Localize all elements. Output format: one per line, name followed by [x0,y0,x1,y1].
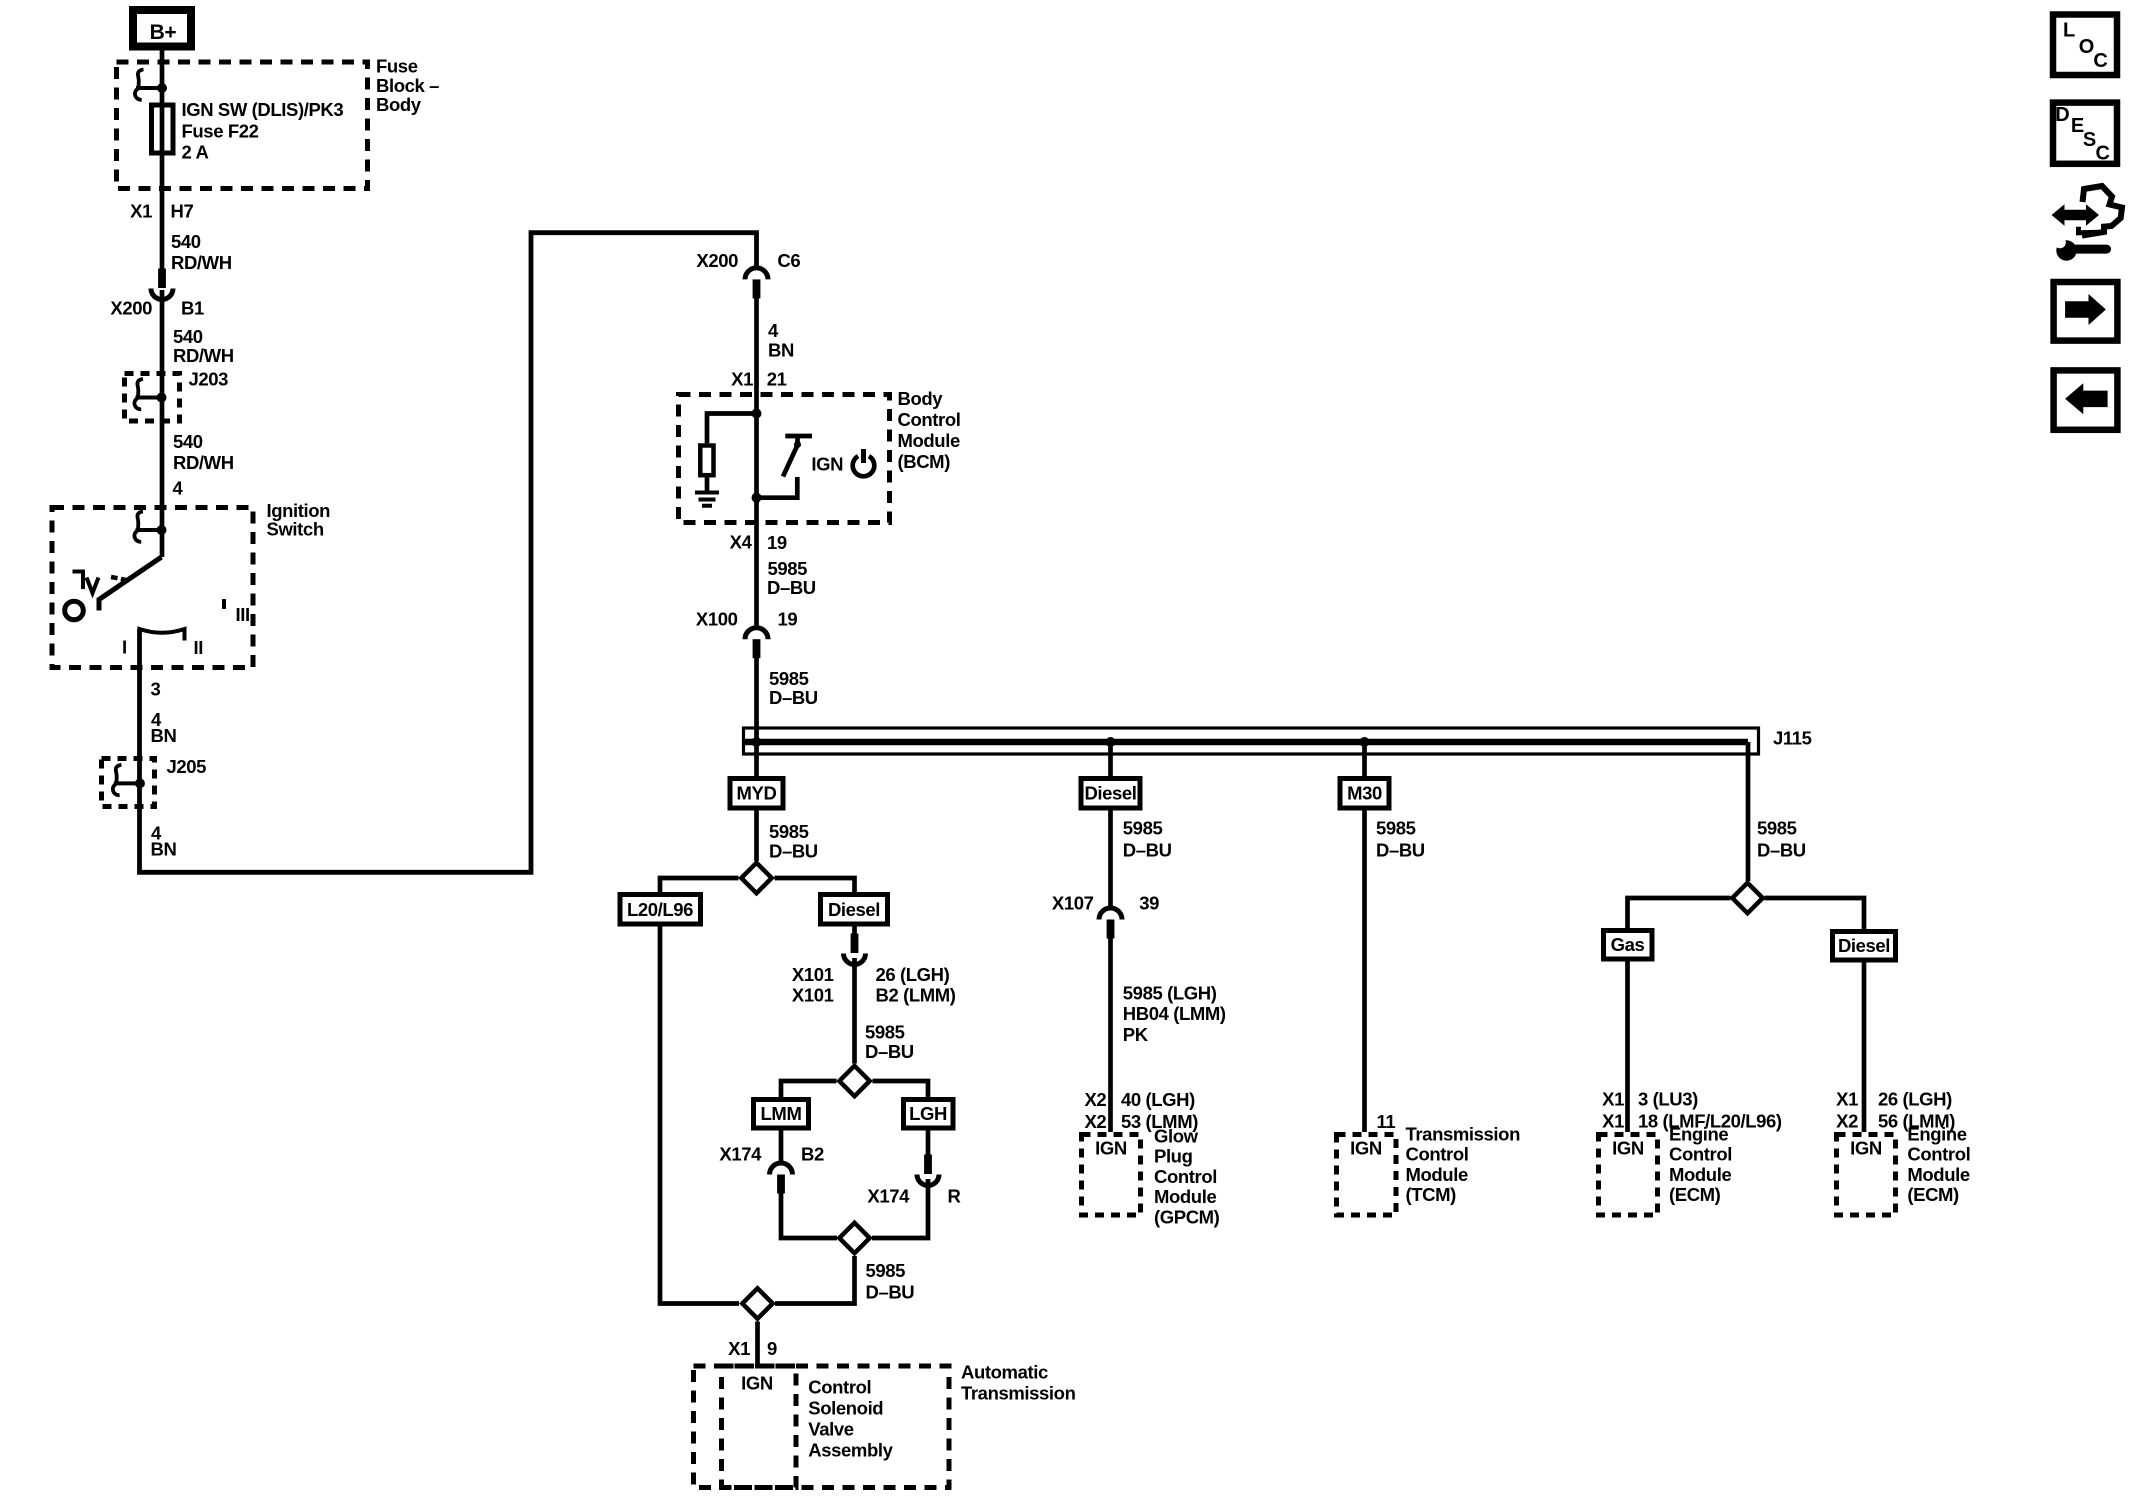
harness repair icon: wrench [2056,240,2076,260]
option box M30 [1362,742,1367,776]
svg-text:Plug: Plug [1154,1146,1193,1167]
wire: X174 B2 down to join diamond [781,1192,837,1238]
svg-text:26 (LGH): 26 (LGH) [876,964,950,985]
fuse block - body dashed box [117,62,368,189]
wire: X107 to GPCM [1108,938,1113,1132]
LOC icon button [2053,15,2117,76]
svg-text:RD/WH: RD/WH [171,252,232,273]
svg-text:IGN: IGN [1350,1138,1382,1159]
option box L20/L96 [620,895,701,925]
position III tick and label [222,599,226,609]
svg-text:X174: X174 [719,1144,762,1165]
option box Diesel (engine) [821,895,888,925]
wire: L20/L96 down and over to transmission diamond [660,927,739,1304]
wire: diamond to Gas [1628,898,1731,928]
svg-text:LMM: LMM [761,1103,802,1124]
engine control module (diesel) dashed box [1837,1135,1896,1216]
svg-text:Glow: Glow [1154,1126,1199,1147]
option box LGH [904,1100,954,1129]
wire: diamond to Diesel ECM [1765,898,1865,929]
fuse F22 [152,105,174,153]
svg-text:Control: Control [898,409,961,430]
svg-text:IGN: IGN [1612,1138,1644,1159]
svg-text:X1: X1 [130,201,152,222]
svg-text:Control: Control [1406,1144,1469,1165]
svg-text:Control: Control [1669,1144,1732,1165]
svg-text:I: I [122,637,127,658]
svg-text:5985: 5985 [1123,818,1163,839]
connector X107 39 (dome over pin) [1099,908,1122,939]
wire: M30 to TCM [1362,811,1367,1133]
svg-text:5985: 5985 [1757,818,1797,839]
connector X100 19 (dome over pin) [745,628,768,659]
DESC icon button [2053,103,2117,164]
svg-text:M30: M30 [1347,783,1382,804]
svg-text:540: 540 [173,326,203,347]
control solenoid valve assembly dashed box [722,1366,797,1488]
splice diamond LMM/LGH [839,1066,869,1096]
automatic transmission dashed box [694,1366,950,1488]
svg-text:Automatic: Automatic [961,1362,1048,1383]
connector X174 R (pin into cup) [917,1155,939,1186]
wire: bus right end down to engine split [1746,742,1751,881]
splice pack J115 bus [744,728,1759,754]
option box LMM [754,1100,809,1129]
svg-text:(BCM): (BCM) [898,451,951,472]
power icon [853,456,875,476]
splice/tap symbol in fuse block [135,70,167,100]
node: bus tap M30 [1360,737,1370,747]
svg-text:Solenoid: Solenoid [808,1398,883,1419]
svg-text:X101: X101 [792,985,834,1006]
svg-text:Module: Module [1907,1164,1969,1185]
svg-text:L20/L96: L20/L96 [627,899,693,920]
wire: join diamond down to transmission diamond [775,1256,855,1304]
forward arrow button [2054,282,2118,341]
connector X174 B2 (dome over pin) [770,1163,793,1194]
svg-text:21: 21 [767,369,787,390]
svg-text:X200: X200 [696,250,738,271]
svg-text:X200: X200 [110,298,152,319]
svg-text:5985 (LGH): 5985 (LGH) [1123,983,1217,1004]
battery terminal B+ [133,10,191,47]
harness repair icon: connector outline [2082,186,2122,236]
svg-text:X2: X2 [1084,1089,1106,1110]
svg-text:HB04 (LMM): HB04 (LMM) [1123,1003,1226,1024]
svg-text:O: O [2079,36,2094,58]
svg-text:Switch: Switch [267,519,324,540]
svg-text:3 (LU3): 3 (LU3) [1638,1089,1698,1110]
position IV glyph [73,572,84,590]
resistor in BCM [700,446,713,476]
svg-text:D–BU: D–BU [1123,840,1172,861]
svg-text:(TCM): (TCM) [1406,1184,1457,1205]
svg-text:5985: 5985 [768,558,808,579]
ignition switch dashed box [52,508,253,668]
svg-text:Control: Control [1907,1144,1970,1165]
svg-text:5985: 5985 [1376,818,1416,839]
svg-text:S: S [2083,129,2096,151]
svg-text:J115: J115 [1773,728,1812,749]
node: bus tap MYD [752,737,762,747]
svg-text:26 (LGH): 26 (LGH) [1878,1089,1952,1110]
svg-text:R: R [948,1186,961,1207]
svg-text:(ECM): (ECM) [1907,1184,1959,1205]
splice diamond gas/diesel [1732,883,1762,913]
wire: diamond to Diesel option [775,878,855,892]
wire: X200 to ignition switch [160,290,165,557]
svg-text:X1: X1 [1602,1111,1624,1132]
svg-text:III: III [236,604,250,625]
svg-text:D–BU: D–BU [769,687,818,708]
svg-text:RD/WH: RD/WH [173,345,234,366]
splice J203 dashed box [125,374,180,422]
svg-text:5985: 5985 [769,821,809,842]
svg-text:D–BU: D–BU [767,577,816,598]
connector X200 C6 (dome over pin) [745,268,768,299]
svg-text:Diesel: Diesel [1084,783,1136,804]
svg-text:X100: X100 [696,609,738,630]
switch pivot circle [65,601,84,620]
svg-text:C6: C6 [777,250,800,271]
svg-text:D–BU: D–BU [1757,840,1806,861]
svg-text:2 A: 2 A [182,142,209,163]
connector X101 (pin into cup) [844,934,866,965]
wire: Diesel to X101 [852,927,857,936]
svg-text:Module: Module [898,430,960,451]
wire: Gas to ECM [1625,962,1630,1133]
position detent arc between I and II [140,629,185,641]
IGN sense switch in BCM [785,436,812,445]
svg-text:X101: X101 [792,964,834,985]
option box Gas [1604,931,1653,960]
transmission control module dashed box [1337,1135,1397,1216]
splice symbol at ignition switch input [134,512,166,542]
wire: Diesel to X107 [1108,811,1113,908]
wire: diamond to LGH [873,1081,929,1097]
wire: branch to pull-down resistor [707,414,757,444]
svg-text:B2: B2 [801,1144,824,1165]
svg-text:D–BU: D–BU [866,1282,915,1303]
node: bus tap Diesel [1106,737,1116,747]
svg-text:Block –: Block – [376,75,439,96]
node: BCM input junction [752,409,762,419]
svg-text:X1: X1 [731,369,753,390]
wire: diamond to L20/L96 [660,878,739,892]
svg-text:MYD: MYD [737,783,777,804]
svg-text:Module: Module [1154,1186,1216,1207]
svg-text:Assembly: Assembly [808,1440,893,1461]
svg-text:Fuse: Fuse [376,56,418,77]
svg-text:Valve: Valve [808,1419,853,1440]
splice diamond below MYD [741,863,771,893]
svg-text:RD/WH: RD/WH [173,452,234,473]
svg-text:Transmission: Transmission [1406,1124,1521,1145]
svg-text:11: 11 [1377,1111,1396,1132]
back arrow button [2054,370,2118,429]
splice symbol J205 [113,765,145,795]
svg-text:IGN: IGN [741,1373,773,1394]
svg-text:D–BU: D–BU [1376,840,1425,861]
svg-text:4: 4 [768,320,779,341]
harness repair icon: double arrow [2052,204,2100,225]
svg-text:Fuse F22: Fuse F22 [182,120,259,141]
svg-text:(GPCM): (GPCM) [1154,1206,1220,1227]
svg-text:II: II [194,637,203,658]
wire: resistor to ground [705,478,710,491]
svg-text:Engine: Engine [1669,1124,1728,1145]
switch blade [99,557,162,611]
svg-text:19: 19 [767,532,787,553]
splice diamond transmission [742,1288,772,1318]
svg-text:IGN: IGN [1095,1138,1127,1159]
svg-text:Diesel: Diesel [1838,935,1890,956]
svg-text:X1: X1 [1836,1089,1858,1110]
svg-text:C: C [2093,50,2107,72]
svg-text:IGN: IGN [1850,1138,1882,1159]
wire: Diesel to ECM [1862,963,1867,1133]
svg-text:Control: Control [1154,1166,1217,1187]
svg-text:IGN SW (DLIS)/PK3: IGN SW (DLIS)/PK3 [182,99,344,120]
svg-text:Engine: Engine [1907,1124,1966,1145]
wire: LMM to X174 [779,1131,784,1163]
wire: C6 down through BCM to X100 [754,297,759,626]
svg-text:540: 540 [173,431,203,452]
svg-text:B+: B+ [150,21,177,44]
svg-text:B1: B1 [181,298,204,319]
svg-text:40 (LGH): 40 (LGH) [1121,1089,1195,1110]
svg-text:Transmission: Transmission [961,1383,1076,1404]
wire: diamond to control solenoid valve assembly [755,1322,760,1364]
svg-text:BN: BN [151,839,177,860]
wire: main run from ignition switch output, down, right, up and over to BCM column [140,233,757,873]
svg-text:Module: Module [1669,1164,1731,1185]
svg-text:PK: PK [1123,1024,1149,1045]
wire: LGH to X174 R [926,1131,931,1159]
ground symbol [695,493,719,506]
splice diamond join [839,1223,869,1253]
svg-text:39: 39 [1139,893,1159,914]
svg-text:D: D [2055,104,2069,126]
svg-text:9: 9 [767,1338,777,1359]
svg-text:J203: J203 [189,369,229,390]
svg-text:19: 19 [778,609,798,630]
wire: diamond to LMM [781,1081,837,1097]
wire: MYD to splice diamond [754,811,759,862]
option box MYD [730,779,783,809]
wire: B+ feed down through fuse block to X200 pin [160,50,165,271]
svg-text:X2: X2 [1084,1111,1106,1132]
splice J205 dashed box [102,759,155,807]
svg-text:J205: J205 [167,756,207,777]
svg-text:X2: X2 [1836,1111,1858,1132]
svg-text:B2 (LMM): B2 (LMM) [876,985,956,1006]
option box Diesel (right) [1833,932,1896,961]
svg-text:X4: X4 [730,532,753,553]
wire: X100 to bus J115 [754,657,759,776]
svg-text:Control: Control [808,1377,871,1398]
svg-text:(ECM): (ECM) [1669,1184,1721,1205]
svg-text:X1: X1 [728,1338,750,1359]
svg-text:5985: 5985 [865,1022,905,1043]
svg-text:540: 540 [171,231,201,252]
svg-text:Diesel: Diesel [828,899,880,920]
svg-text:3: 3 [151,679,161,700]
svg-text:Body: Body [376,94,422,115]
svg-text:BN: BN [768,340,794,361]
svg-text:H7: H7 [171,201,194,222]
connector X200 B1 (pin into cup) [151,269,173,300]
svg-text:C: C [2096,143,2110,165]
glow plug control module dashed box [1082,1135,1141,1216]
wire: X174 R down to join diamond [872,1179,928,1238]
svg-text:5985: 5985 [769,668,809,689]
svg-text:Module: Module [1406,1164,1468,1185]
wire: X101 to LMM/LGH diamond [852,958,857,1064]
svg-text:D–BU: D–BU [769,841,818,862]
svg-text:5985: 5985 [866,1260,906,1281]
splice symbol J203 [134,379,166,409]
svg-text:X107: X107 [1052,893,1094,914]
svg-text:IGN: IGN [811,454,843,475]
svg-text:D–BU: D–BU [865,1041,914,1062]
svg-text:LGH: LGH [909,1103,947,1124]
svg-text:Gas: Gas [1611,934,1645,955]
option box Diesel (bus tap) [1108,742,1113,776]
engine control module (gas) dashed box [1599,1135,1658,1216]
node: BCM output junction [752,493,762,503]
svg-text:X174: X174 [867,1186,910,1207]
svg-text:Body: Body [898,388,944,409]
svg-text:L: L [2063,20,2075,42]
body control module dashed box [679,395,890,523]
svg-text:BN: BN [151,725,177,746]
svg-text:X1: X1 [1602,1089,1624,1110]
svg-text:4: 4 [173,478,184,499]
